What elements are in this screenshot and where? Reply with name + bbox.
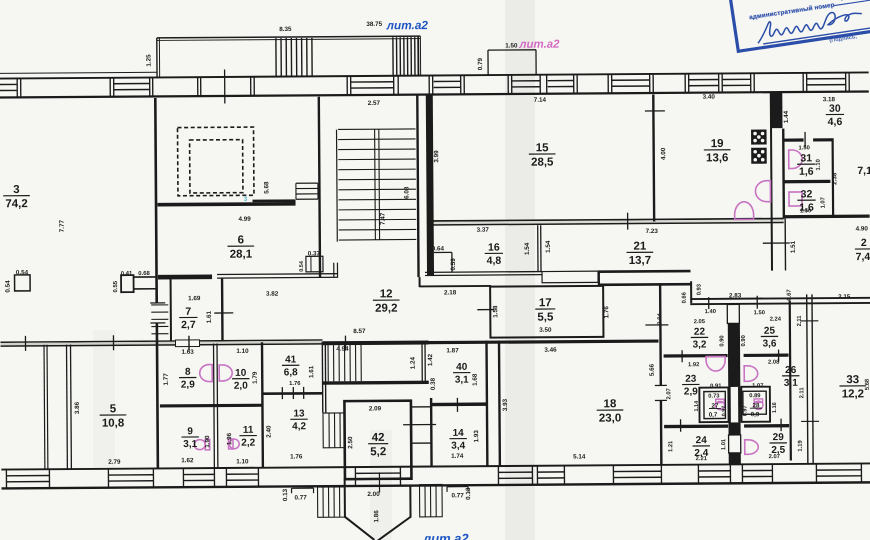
svg-text:30: 30 (829, 103, 841, 115)
svg-text:13,6: 13,6 (706, 152, 728, 164)
svg-text:1.51: 1.51 (790, 240, 797, 253)
svg-text:21: 21 (633, 241, 646, 253)
svg-text:0.13: 0.13 (282, 488, 289, 501)
svg-text:13,7: 13,7 (629, 255, 651, 267)
svg-text:5: 5 (110, 403, 117, 415)
svg-text:1.54: 1.54 (545, 240, 552, 253)
svg-text:19: 19 (711, 138, 724, 150)
svg-text:2,7: 2,7 (181, 319, 196, 331)
svg-text:3.93: 3.93 (502, 398, 509, 411)
svg-text:1.50: 1.50 (798, 145, 809, 151)
svg-text:0.93: 0.93 (697, 283, 703, 295)
svg-text:2.05: 2.05 (694, 319, 706, 325)
svg-text:4,6: 4,6 (828, 116, 843, 128)
svg-text:0.54: 0.54 (299, 260, 305, 272)
svg-text:1.61: 1.61 (308, 365, 315, 378)
svg-text:5.14: 5.14 (573, 453, 586, 460)
svg-text:1.10: 1.10 (236, 458, 249, 465)
svg-text:10: 10 (235, 368, 247, 379)
svg-text:лит.а2: лит.а2 (422, 531, 469, 540)
svg-text:1.42: 1.42 (427, 353, 434, 366)
svg-text:23: 23 (685, 374, 697, 385)
svg-text:3.40: 3.40 (703, 94, 716, 101)
svg-text:7,1: 7,1 (857, 165, 870, 177)
svg-text:25: 25 (764, 326, 776, 337)
svg-text:1.19: 1.19 (798, 440, 804, 452)
svg-text:1.50: 1.50 (800, 208, 811, 214)
svg-text:33: 33 (846, 374, 859, 386)
svg-text:1.61: 1.61 (206, 310, 213, 323)
svg-text:1.54: 1.54 (524, 242, 531, 255)
svg-text:16: 16 (488, 242, 500, 254)
svg-text:7,4: 7,4 (856, 251, 870, 263)
svg-text:31: 31 (800, 152, 812, 164)
svg-text:2,2: 2,2 (241, 438, 255, 449)
svg-text:28,5: 28,5 (531, 156, 554, 168)
svg-text:0.59: 0.59 (450, 258, 457, 271)
svg-text:4,8: 4,8 (487, 255, 502, 267)
svg-text:6.08: 6.08 (403, 186, 410, 199)
svg-text:2.18: 2.18 (444, 289, 457, 296)
svg-text:2: 2 (861, 237, 867, 249)
svg-text:1.10: 1.10 (816, 159, 822, 170)
svg-text:0.97: 0.97 (742, 405, 748, 416)
svg-text:1.68: 1.68 (472, 373, 479, 386)
svg-text:2.00: 2.00 (367, 491, 380, 498)
svg-text:4.90: 4.90 (856, 225, 869, 232)
svg-text:2,9: 2,9 (181, 379, 195, 390)
svg-text:7.23: 7.23 (646, 228, 659, 235)
svg-text:0.77: 0.77 (294, 494, 307, 501)
svg-text:8: 8 (185, 367, 191, 378)
svg-text:3,1: 3,1 (455, 375, 469, 386)
svg-text:1.07: 1.07 (821, 197, 827, 208)
svg-text:3.86: 3.86 (74, 401, 81, 414)
svg-text:12,2: 12,2 (842, 388, 864, 400)
svg-text:24: 24 (696, 435, 708, 446)
svg-text:1.76: 1.76 (289, 381, 301, 387)
svg-text:0.41: 0.41 (121, 271, 133, 277)
svg-text:0.37: 0.37 (308, 250, 321, 257)
svg-text:0.67: 0.67 (787, 289, 793, 300)
svg-text:1.63: 1.63 (181, 349, 194, 356)
svg-text:2,0: 2,0 (234, 381, 248, 392)
svg-text:4,2: 4,2 (292, 421, 306, 432)
svg-text:2.11: 2.11 (799, 387, 805, 399)
svg-text:0.90: 0.90 (719, 335, 725, 346)
svg-text:7: 7 (185, 306, 191, 318)
svg-text:0.89: 0.89 (749, 393, 761, 399)
svg-text:0.68: 0.68 (138, 271, 150, 277)
svg-text:0.79: 0.79 (477, 58, 484, 71)
svg-text:17: 17 (539, 297, 552, 309)
svg-text:6,8: 6,8 (284, 367, 298, 378)
svg-text:1.76: 1.76 (603, 306, 610, 319)
svg-text:42: 42 (372, 432, 385, 444)
svg-text:лит.а2: лит.а2 (386, 18, 429, 32)
svg-text:5.66: 5.66 (649, 363, 656, 376)
svg-text:0.55: 0.55 (113, 280, 119, 292)
svg-text:2,9: 2,9 (684, 386, 698, 397)
svg-text:13: 13 (293, 408, 305, 419)
svg-text:0,7: 0,7 (709, 412, 718, 419)
svg-text:1.25: 1.25 (145, 54, 152, 67)
svg-text:0.91: 0.91 (710, 383, 722, 389)
svg-text:1.90: 1.90 (204, 435, 211, 448)
svg-text:28,1: 28,1 (230, 249, 253, 261)
svg-text:1.01: 1.01 (721, 438, 727, 450)
svg-text:1.74: 1.74 (451, 453, 464, 460)
svg-text:2.21: 2.21 (696, 456, 708, 462)
svg-text:2.40: 2.40 (266, 425, 273, 438)
svg-text:лит.а2: лит.а2 (518, 39, 560, 51)
svg-text:3.46: 3.46 (544, 347, 557, 354)
svg-text:3,1: 3,1 (183, 439, 197, 450)
svg-text:29: 29 (773, 432, 785, 443)
svg-text:12: 12 (380, 288, 393, 300)
svg-text:5.68: 5.68 (263, 181, 270, 194)
svg-text:23,0: 23,0 (599, 413, 621, 425)
svg-text:1,6: 1,6 (799, 166, 814, 178)
svg-text:0.64: 0.64 (432, 245, 445, 252)
svg-text:1.62: 1.62 (181, 457, 194, 464)
svg-text:1.96: 1.96 (226, 432, 233, 445)
svg-text:29,2: 29,2 (375, 303, 397, 315)
svg-text:4.99: 4.99 (238, 216, 251, 223)
svg-text:3,6: 3,6 (763, 338, 777, 349)
svg-text:0,9: 0,9 (751, 411, 760, 418)
svg-text:9: 9 (187, 426, 193, 437)
svg-text:6: 6 (238, 234, 244, 246)
svg-text:2.50: 2.50 (347, 436, 354, 449)
svg-text:2.04: 2.04 (657, 312, 663, 324)
svg-text:1.07: 1.07 (752, 383, 763, 389)
svg-text:1.58: 1.58 (492, 305, 499, 318)
svg-text:1.50: 1.50 (505, 42, 518, 49)
svg-text:32: 32 (801, 188, 813, 200)
svg-text:5.68: 5.68 (865, 378, 870, 390)
svg-text:2.57: 2.57 (368, 100, 381, 107)
svg-text:7.77: 7.77 (59, 219, 66, 232)
svg-text:3.18: 3.18 (823, 96, 836, 103)
svg-text:1.86: 1.86 (373, 510, 380, 523)
svg-text:1.16: 1.16 (772, 402, 778, 413)
svg-text:3.82: 3.82 (266, 291, 279, 298)
svg-text:38.75: 38.75 (366, 21, 382, 28)
svg-text:1.87: 1.87 (446, 347, 459, 354)
svg-text:5,5: 5,5 (537, 311, 554, 323)
svg-text:8.35: 8.35 (279, 26, 292, 33)
svg-text:2.15: 2.15 (838, 294, 851, 301)
svg-text:1.92: 1.92 (688, 362, 699, 368)
svg-text:41: 41 (285, 354, 297, 365)
svg-text:3,2: 3,2 (693, 339, 707, 350)
svg-text:11: 11 (243, 425, 254, 436)
svg-text:1.40: 1.40 (705, 309, 716, 315)
svg-text:2.09: 2.09 (369, 405, 382, 412)
svg-text:3,4: 3,4 (451, 441, 465, 452)
svg-text:3.99: 3.99 (433, 150, 440, 163)
svg-text:1.14: 1.14 (694, 400, 700, 412)
svg-text:3: 3 (13, 184, 19, 196)
svg-text:4.94: 4.94 (336, 346, 349, 353)
svg-text:0.77: 0.77 (451, 492, 464, 499)
svg-text:2.11: 2.11 (797, 315, 803, 327)
svg-text:4.00: 4.00 (660, 147, 667, 160)
svg-text:2.24: 2.24 (770, 317, 782, 323)
svg-text:1.21: 1.21 (668, 440, 674, 452)
svg-text:1.10: 1.10 (236, 348, 249, 355)
svg-text:0.66: 0.66 (682, 291, 688, 303)
svg-text:1.77: 1.77 (163, 373, 170, 386)
svg-text:26: 26 (785, 365, 797, 376)
svg-text:7.14: 7.14 (534, 97, 547, 104)
svg-text:3,1: 3,1 (784, 378, 798, 389)
svg-text:8.57: 8.57 (353, 328, 366, 335)
svg-text:2.79: 2.79 (108, 459, 121, 466)
svg-text:2.07: 2.07 (769, 454, 780, 460)
svg-text:3.50: 3.50 (539, 327, 552, 334)
svg-text:74,2: 74,2 (5, 198, 27, 210)
svg-text:14: 14 (453, 428, 465, 439)
svg-text:1.69: 1.69 (188, 295, 201, 302)
svg-text:1.79: 1.79 (252, 371, 259, 384)
svg-text:1.93: 1.93 (473, 430, 480, 443)
svg-text:0.73: 0.73 (708, 394, 720, 400)
svg-text:1.76: 1.76 (290, 453, 303, 460)
svg-text:7.47: 7.47 (380, 212, 387, 225)
svg-text:40: 40 (456, 362, 468, 373)
svg-text:1.50: 1.50 (754, 310, 765, 316)
svg-text:15: 15 (536, 142, 549, 154)
svg-text:1.24: 1.24 (410, 357, 417, 370)
svg-text:0.54: 0.54 (16, 269, 29, 276)
svg-text:0.97: 0.97 (721, 406, 727, 417)
svg-text:22: 22 (694, 327, 706, 338)
svg-text:0.54: 0.54 (5, 280, 12, 293)
svg-text:2.38: 2.38 (831, 172, 838, 185)
svg-text:18: 18 (604, 398, 617, 410)
svg-text:2.08: 2.08 (768, 360, 780, 366)
svg-text:2.83: 2.83 (729, 292, 742, 299)
svg-text:5,2: 5,2 (370, 446, 386, 458)
svg-text:2.07: 2.07 (666, 388, 672, 399)
svg-text:0.38: 0.38 (430, 377, 437, 390)
svg-text:10,8: 10,8 (102, 417, 125, 429)
svg-text:1.44: 1.44 (783, 110, 790, 123)
svg-text:3.37: 3.37 (477, 227, 490, 234)
svg-text:0.90: 0.90 (741, 335, 747, 346)
